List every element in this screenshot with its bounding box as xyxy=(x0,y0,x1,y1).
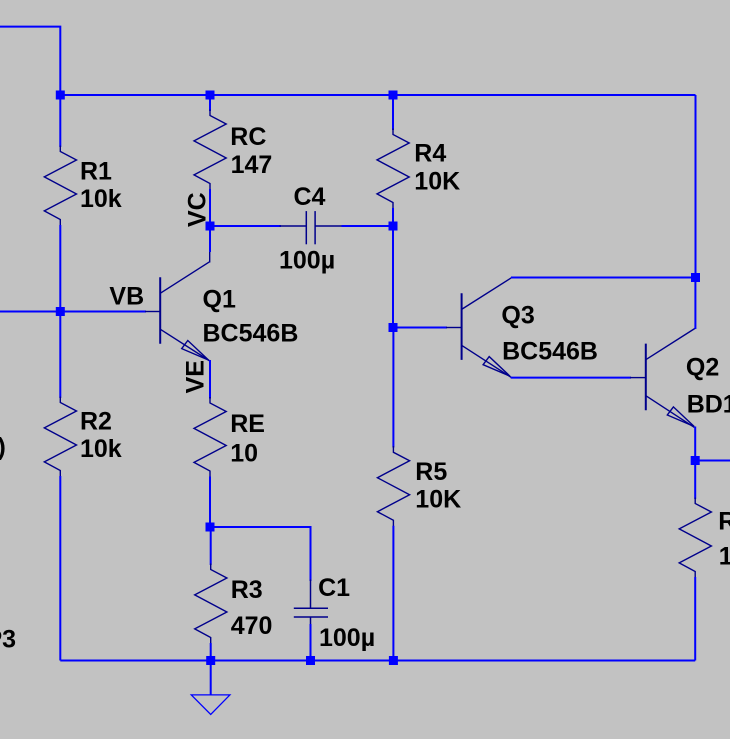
svg-text:R6: R6 xyxy=(718,507,730,535)
junction node: Q3 base / R5 xyxy=(389,323,398,332)
wire Q3 emitter to Q2 base xyxy=(511,377,631,379)
wire R5 bottom to rail xyxy=(392,526,394,661)
svg-text:VB: VB xyxy=(109,282,144,310)
svg-text:BC546B: BC546B xyxy=(203,320,299,348)
transistor Q2 xyxy=(646,328,696,427)
capacitor C4 xyxy=(280,211,343,244)
wire R4 top lead xyxy=(392,95,394,130)
svg-text:BD139: BD139 xyxy=(687,391,730,419)
wire C4 node down to Q3 base node xyxy=(392,226,394,328)
junction node: Q2 emitter / R6 / output xyxy=(691,456,700,465)
wire top-left horizontal xyxy=(0,27,60,95)
wire RE bottom to node xyxy=(209,477,211,528)
svg-text:100µ: 100µ xyxy=(319,624,375,652)
wire R3 bottom to rail xyxy=(210,643,212,661)
wire node to C1 top xyxy=(210,527,311,581)
svg-text:Q3: Q3 xyxy=(501,302,534,330)
wire Q2 emitter node to right edge xyxy=(695,460,730,462)
junction node: top rail / R1 xyxy=(56,91,65,100)
wire RC top lead xyxy=(209,95,211,111)
wire Q3 collector to right node xyxy=(511,277,696,279)
svg-text:R2: R2 xyxy=(80,408,112,436)
junction node: Q3 collector / Q2 collector xyxy=(691,273,700,282)
wire R6 bottom to rail corner xyxy=(694,577,696,661)
svg-text:10k: 10k xyxy=(80,435,122,463)
svg-text:R1: R1 xyxy=(80,158,112,186)
wire right vertical from rail to Q3 collector node xyxy=(695,95,697,278)
svg-text:470: 470 xyxy=(231,612,273,640)
svg-text:10K: 10K xyxy=(414,168,460,196)
transistor Q1 xyxy=(160,250,210,361)
wire ground rail xyxy=(60,660,695,662)
junction node: rail / C1 bottom xyxy=(306,656,315,665)
svg-text:10: 10 xyxy=(719,543,730,571)
junction node: rail / R5 bottom xyxy=(389,656,398,665)
svg-text:): ) xyxy=(0,433,6,461)
svg-text:R3: R3 xyxy=(231,576,263,604)
svg-text:Q2: Q2 xyxy=(686,353,719,381)
junction node: rail / ground xyxy=(206,656,215,665)
resistor R4 xyxy=(377,129,409,210)
wire Q2 collector up to node xyxy=(694,278,696,330)
svg-text:R4: R4 xyxy=(414,140,446,168)
svg-text:10K: 10K xyxy=(415,485,461,513)
svg-text:RE: RE xyxy=(230,410,265,438)
wire R5 top lead xyxy=(392,328,394,448)
svg-text:C1: C1 xyxy=(318,574,350,602)
wire C1 bottom to rail xyxy=(310,624,312,661)
wire R2 bottom to ground rail xyxy=(59,476,61,661)
wire Q1 collector to VC node xyxy=(209,226,211,252)
junction node VB: base divider xyxy=(56,307,65,316)
resistor R5 xyxy=(377,446,409,527)
svg-text:C4: C4 xyxy=(294,183,326,211)
wire R3 top lead xyxy=(210,527,212,565)
svg-text:RC: RC xyxy=(230,123,266,151)
wire top rail xyxy=(60,94,695,96)
wire R2 top lead xyxy=(59,312,61,399)
svg-text:147: 147 xyxy=(231,151,273,179)
resistor R6 (label cut at edge) xyxy=(679,498,711,579)
wire RC bottom to VC node xyxy=(209,189,211,226)
wire Q3 base xyxy=(393,327,447,329)
wire VB base input xyxy=(0,311,146,313)
capacitor C1 xyxy=(294,580,328,626)
svg-text:VE: VE xyxy=(182,360,210,393)
svg-text:BC546B: BC546B xyxy=(502,338,598,366)
resistor R2 xyxy=(44,397,76,478)
svg-text:Q1: Q1 xyxy=(203,286,236,314)
resistor RC xyxy=(194,110,226,191)
resistor R3 xyxy=(195,564,227,645)
wire Q1 emitter down xyxy=(209,360,211,399)
resistor R1 xyxy=(44,146,76,227)
junction node: R4 / C4 right xyxy=(389,222,398,231)
svg-text:100µ: 100µ xyxy=(279,247,335,275)
wire R4 bottom to C4 node xyxy=(392,208,394,226)
wire Q2 emitter down to node xyxy=(694,427,696,461)
ground xyxy=(210,661,212,696)
svg-text:10: 10 xyxy=(230,439,258,467)
wire R1 bottom to VB node xyxy=(59,225,61,312)
wire C4 left xyxy=(210,225,281,227)
junction node: top rail / RC xyxy=(206,91,215,100)
junction node: RE / R3 / C1 xyxy=(206,523,215,532)
junction node: top rail / R4 xyxy=(389,91,398,100)
svg-text:10k: 10k xyxy=(80,185,122,213)
svg-text:R5: R5 xyxy=(415,458,447,486)
svg-text:P3: P3 xyxy=(0,626,16,654)
wire C4 right xyxy=(342,225,394,227)
wire R6 top lead xyxy=(694,461,696,500)
junction node VC: RC / C4 / Q1 collector xyxy=(206,222,215,231)
transistor Q3 xyxy=(462,278,512,378)
resistor RE xyxy=(194,397,226,478)
wire R1 top lead xyxy=(59,95,61,147)
